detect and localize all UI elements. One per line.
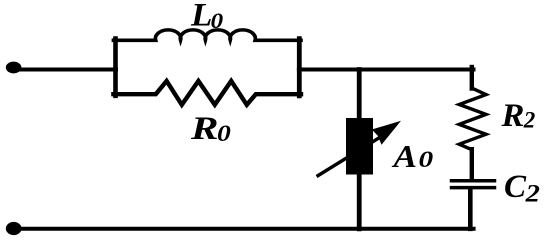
svg-text:2: 2 (525, 179, 540, 207)
svg-text:R: R (500, 98, 524, 134)
svg-text:A: A (391, 139, 417, 174)
svg-text:L: L (190, 0, 212, 33)
svg-text:R: R (190, 111, 219, 147)
svg-text:0: 0 (217, 121, 231, 146)
svg-text:C: C (504, 169, 527, 205)
svg-text:0: 0 (419, 146, 434, 173)
svg-text:0: 0 (211, 9, 224, 33)
svg-text:2: 2 (523, 108, 536, 133)
